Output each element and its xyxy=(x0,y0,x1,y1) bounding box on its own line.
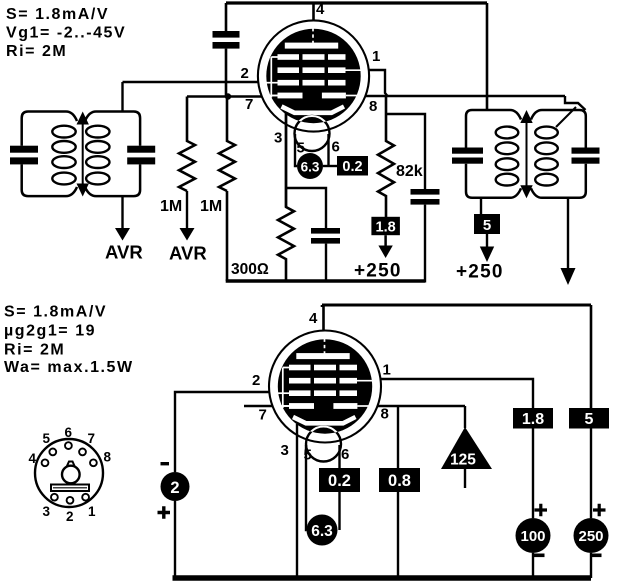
svg-text:6.3: 6.3 xyxy=(311,523,333,540)
svg-text:Vg1= -2..-45V: Vg1= -2..-45V xyxy=(6,25,126,42)
wire pin3 cathode to rail xyxy=(296,424,298,578)
resistor R4 82k xyxy=(378,96,394,217)
wire bottom top bus xyxy=(322,304,591,307)
svg-text:1M: 1M xyxy=(160,198,182,215)
transformer T2 secondary winding xyxy=(531,110,586,198)
value box 0.8 bottom xyxy=(379,468,420,492)
svg-text:AVR: AVR xyxy=(169,243,207,264)
svg-text:3: 3 xyxy=(281,442,289,459)
svg-text:8: 8 xyxy=(369,98,377,115)
svg-text:100: 100 xyxy=(520,528,545,545)
svg-text:S= 1.8mA/V: S= 1.8mA/V xyxy=(4,304,107,321)
svg-text:6: 6 xyxy=(341,446,349,463)
wire pin7 stub xyxy=(244,405,272,407)
wire anode pin4 to bus xyxy=(312,3,315,21)
svg-text:1.8: 1.8 xyxy=(522,411,544,428)
tube V1 grid row 3 xyxy=(278,80,346,86)
wire box 1.8 to meter 100 xyxy=(532,429,534,519)
svg-text:1: 1 xyxy=(383,362,391,379)
wire heater to box xyxy=(323,165,337,167)
socket pin hole 1 xyxy=(82,494,89,501)
svg-text:5: 5 xyxy=(304,447,312,464)
value box 1.8 xyxy=(371,217,400,236)
label minus battery 2 xyxy=(161,462,170,465)
transformer T2 primary winding xyxy=(466,110,521,198)
svg-text:+250: +250 xyxy=(354,261,402,282)
svg-text:3: 3 xyxy=(274,130,282,147)
wire pin4 bottom tube xyxy=(322,305,324,331)
svg-text:6: 6 xyxy=(65,425,73,440)
tube V2 pin lead whites xyxy=(276,339,374,407)
tube V2 grid row 1 xyxy=(289,365,357,371)
svg-text:Ri= 2M: Ri= 2M xyxy=(6,43,67,60)
socket key bar xyxy=(51,485,89,492)
tube V2 cathode xyxy=(293,417,356,423)
wire pin6 heater bottom xyxy=(338,445,340,530)
svg-text:4: 4 xyxy=(309,310,318,327)
wire pin6 heater xyxy=(327,134,329,166)
svg-text:+250: +250 xyxy=(456,262,504,283)
resistor R1 1M xyxy=(179,97,195,191)
svg-text:7: 7 xyxy=(88,431,96,446)
arrow +250 left xyxy=(378,235,392,258)
wire pin5 heater bottom xyxy=(305,445,308,530)
wire screen bus pin8 xyxy=(366,95,565,98)
wire grid pin2 line xyxy=(123,81,259,83)
battery circle 2 xyxy=(161,472,190,501)
tube V1 heater dome xyxy=(295,116,330,151)
svg-text:5: 5 xyxy=(297,140,305,157)
value box 0.2 bottom xyxy=(319,468,360,492)
transformer T1 tuning arrow xyxy=(77,112,89,197)
svg-text:82k: 82k xyxy=(396,163,423,180)
wire top bus xyxy=(226,1,487,4)
wire R2 to cathode rail xyxy=(226,191,229,281)
label plus meter 100 xyxy=(535,504,548,516)
svg-text:4: 4 xyxy=(29,451,37,466)
svg-text:2: 2 xyxy=(252,372,260,389)
svg-text:300Ω: 300Ω xyxy=(231,261,269,278)
wire bus down to grid capacitor xyxy=(225,3,228,31)
svg-text:3: 3 xyxy=(43,504,51,519)
svg-text:1M: 1M xyxy=(200,198,222,215)
svg-text:125: 125 xyxy=(450,452,476,469)
transformer T1 secondary winding xyxy=(85,112,140,197)
svg-text:8: 8 xyxy=(104,450,112,465)
tube V1 internal strap g2-g4 xyxy=(271,57,278,98)
wire pin1 to screen bus xyxy=(369,70,388,96)
socket pin hole 6 xyxy=(65,442,72,449)
capacitor C4 cathode bypass xyxy=(286,188,340,281)
socket pin hole 8 xyxy=(90,459,97,466)
meter circle 250 xyxy=(574,518,609,553)
svg-text:1: 1 xyxy=(88,504,96,519)
svg-text:1: 1 xyxy=(372,48,380,65)
svg-text:4: 4 xyxy=(316,1,325,18)
label minus meter 100 xyxy=(534,554,545,558)
value box 0.2 heater amps xyxy=(337,156,368,176)
label minus meter 250 xyxy=(591,554,602,558)
tube V1 anode bar xyxy=(285,43,338,49)
capacitor C7 output tank right xyxy=(572,148,600,164)
tube V2 internal strap g2-g4 xyxy=(283,368,290,409)
svg-text:2: 2 xyxy=(170,479,179,497)
label plus battery 2 xyxy=(158,506,171,519)
value box 5 bottom xyxy=(569,408,609,429)
wire T2 secondary tap diagonal xyxy=(556,107,576,127)
tube V1 pin lead whites xyxy=(265,28,363,96)
socket diagram outline xyxy=(35,439,103,507)
svg-text:0.8: 0.8 xyxy=(388,472,411,490)
tube V2 grid row 4 xyxy=(289,403,357,409)
svg-text:7: 7 xyxy=(245,96,253,113)
arrow triangle 125 output xyxy=(441,406,492,488)
capacitor C5 screen bypass xyxy=(386,114,440,283)
svg-text:µg2g1= 19: µg2g1= 19 xyxy=(4,323,96,340)
label plus meter 250 xyxy=(593,504,606,516)
wire bus down to output transformer xyxy=(486,3,489,110)
wire meter 100 to rail xyxy=(532,553,534,578)
svg-text:7: 7 xyxy=(259,407,267,424)
tube V2 grid row 3 xyxy=(289,390,357,396)
value box 1.8 bottom xyxy=(513,408,553,429)
wire bottom ground rail xyxy=(173,575,592,581)
resistor R3 300 ohm cathode xyxy=(278,112,294,281)
svg-text:Ri= 2M: Ri= 2M xyxy=(4,342,65,359)
svg-text:6.3: 6.3 xyxy=(301,160,320,175)
wire grid-return pin7 line xyxy=(187,95,262,97)
parameter text block top xyxy=(6,6,126,60)
tube V1 grid row 2 xyxy=(278,67,346,73)
tube V1 grid row 4 xyxy=(278,93,346,99)
wire pin1 anode line xyxy=(381,379,533,408)
svg-text:0.2: 0.2 xyxy=(342,159,362,175)
wire cathode bottom rail xyxy=(226,279,425,283)
svg-text:5: 5 xyxy=(43,431,51,446)
arrow AVR from T1 secondary xyxy=(115,196,130,240)
wire T1 secondary top to grid line xyxy=(121,82,123,112)
svg-text:S= 1.8mA/V: S= 1.8mA/V xyxy=(6,6,109,23)
transformer T1 primary winding xyxy=(22,112,77,197)
arrow T2 secondary output xyxy=(561,198,576,285)
tube V1 mixer xyxy=(258,20,369,151)
tube V2 grid row 2 xyxy=(289,378,357,384)
tube V2 electrode disc xyxy=(278,339,372,433)
tube V1 electrode disc xyxy=(266,29,360,123)
socket center spigot xyxy=(62,462,80,484)
tube V1 grid row 1 xyxy=(278,54,346,60)
svg-text:6: 6 xyxy=(332,139,340,156)
wire box 0.8 to rail xyxy=(397,492,399,578)
node junction dot xyxy=(225,93,231,99)
svg-text:1.8: 1.8 xyxy=(376,219,396,235)
wire grid pin2 to battery rail xyxy=(175,392,269,472)
svg-text:5: 5 xyxy=(483,217,491,234)
wire pin3 cathode down xyxy=(285,112,287,207)
svg-text:8: 8 xyxy=(381,406,389,423)
svg-text:2: 2 xyxy=(241,65,249,82)
tube V1 cathode xyxy=(282,107,345,113)
socket pin hole 2 xyxy=(67,497,74,504)
wire meter 250 to rail xyxy=(590,553,592,578)
wire pin8 screen line xyxy=(378,405,465,407)
resistor R2 1M xyxy=(219,97,235,191)
svg-text:2: 2 xyxy=(66,509,74,524)
value box 5 xyxy=(474,198,500,234)
wire box 5 to meter 250 xyxy=(590,429,592,519)
tube V1 envelope xyxy=(258,20,369,131)
tube V2 envelope xyxy=(269,331,381,443)
wire bus jog to T2 secondary xyxy=(565,96,586,110)
svg-text:250: 250 xyxy=(578,528,603,545)
tube V2 anode bar xyxy=(296,353,349,359)
svg-text:5: 5 xyxy=(585,411,594,428)
capacitor C1 grid coupling xyxy=(213,31,240,97)
wire bus right drop xyxy=(590,305,593,408)
capacitor C6 output tank left xyxy=(452,148,483,164)
arrow AVR from R1 xyxy=(180,191,195,241)
parameter text block bottom xyxy=(4,304,134,377)
transformer T2 tuning arrow xyxy=(520,110,532,198)
arrow +250 right xyxy=(480,234,494,262)
socket pin hole 5 xyxy=(49,449,56,456)
wire battery 2 to rail xyxy=(174,501,176,578)
socket pin hole 3 xyxy=(51,494,58,501)
capacitor C2 input tank left xyxy=(10,146,38,165)
svg-text:Wa= max.1.5W: Wa= max.1.5W xyxy=(4,359,134,376)
value circle 6.3 bottom xyxy=(307,515,338,546)
value circle 6.3 heater volts xyxy=(297,153,323,179)
wire screen drop to box 0.8 xyxy=(397,406,399,468)
svg-text:AVR: AVR xyxy=(105,242,143,263)
svg-text:0.2: 0.2 xyxy=(328,472,351,490)
socket pin hole 4 xyxy=(42,459,49,466)
socket pin hole 7 xyxy=(79,449,86,456)
capacitor C3 input tank right xyxy=(127,146,155,165)
meter circle 100 xyxy=(516,518,551,553)
tube V2 heater dome xyxy=(306,427,341,462)
tube V2 amplifier xyxy=(269,331,381,462)
wire pin5 heater xyxy=(295,134,297,166)
